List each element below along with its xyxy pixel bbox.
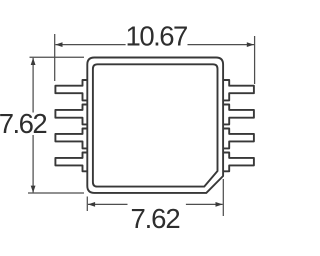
body outer outline with chamfer (87, 58, 223, 193)
lead 1 left (55, 80, 87, 100)
lead 8 right (223, 153, 254, 172)
lead 7 right (223, 129, 254, 149)
left dim extension line bottom (28, 192, 84, 194)
bottom dim extension line right (222, 179, 224, 216)
svg-text:10.67: 10.67 (126, 21, 188, 52)
body inner outline with chamfer (93, 64, 218, 186)
svg-text:7.62: 7.62 (130, 203, 179, 234)
lead 3 left (55, 129, 87, 149)
bottom dim line left segment (88, 203, 128, 205)
svg-text:7.62: 7.62 (0, 108, 46, 139)
top dim extension line right (254, 36, 256, 84)
arrowhead bottom-left pointing left (88, 202, 95, 207)
top dim line right segment (188, 44, 255, 46)
left dim extension line top (30, 56, 85, 58)
top dim extension line left (54, 34, 56, 81)
bottom dim line right segment (186, 203, 223, 205)
lead 4 left (55, 153, 87, 172)
bottom dim extension line left (86, 197, 88, 212)
left dim line lower segment (32, 135, 34, 192)
package body outer outline (55, 58, 254, 193)
arrowhead top-left pointing left (55, 42, 62, 47)
left dim line upper segment (32, 58, 34, 113)
arrowhead left-top pointing up (31, 58, 36, 65)
top dim line left segment (55, 44, 125, 46)
arrowhead bottom-right pointing right (216, 202, 223, 207)
lead 6 right (223, 105, 254, 125)
lead 5 right (223, 80, 254, 100)
arrowhead top-right pointing right (247, 42, 254, 47)
lead 2 left (55, 105, 87, 125)
arrowhead left-bottom pointing down (31, 186, 36, 193)
